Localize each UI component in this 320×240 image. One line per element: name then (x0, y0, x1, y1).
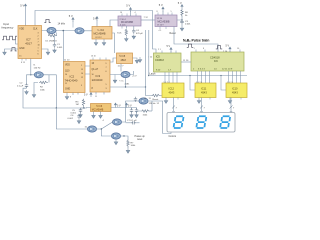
5V arrows on rail (114, 103, 116, 108)
wire latch to IC11 LD (190, 76, 195, 91)
svg-text:4543: 4543 (201, 91, 207, 95)
svg-text:MC14538B: MC14538B (158, 20, 170, 23)
digit 1 (174, 116, 184, 128)
divider IC3 CD4040 (90, 60, 110, 92)
counter IC5 CD4518 (154, 53, 182, 72)
wire IC5 to IC6 (181, 61, 191, 63)
digit 2 (196, 116, 206, 128)
counter IC5a half 4518 (117, 53, 133, 64)
svg-text:MC14584B: MC14584B (94, 33, 106, 36)
svg-text:Reset: Reset (170, 32, 177, 35)
resistor R3 (82, 99, 84, 107)
svg-text:Q1-A7: Q1-A7 (92, 68, 99, 71)
svg-text:10: 10 (65, 74, 67, 76)
svg-text:MC14584B: MC14584B (92, 109, 104, 111)
pin stubs under 4543s (178, 98, 241, 100)
svg-text:4518: 4518 (121, 59, 127, 62)
5V at IC8b (162, 11, 164, 15)
display module (167, 113, 235, 133)
svg-text:¼ IC: ¼ IC (119, 80, 124, 83)
svg-text:16 10: 16 10 (91, 56, 96, 58)
resistor R7 (127, 140, 129, 148)
svg-text:7: 7 (106, 67, 107, 69)
resistor R4 (150, 110, 152, 112)
5V at IC8a (130, 12, 132, 17)
pulse glyph near IC7 output (44, 19, 50, 22)
ground under R7 (127, 148, 129, 149)
svg-text:Reset: Reset (153, 98, 159, 101)
svg-text:6: 6 (106, 71, 107, 73)
pin stubs below IC7 (22, 59, 26, 61)
svg-text:D1 1N5818: D1 1N5818 (46, 40, 58, 42)
wire gate U-C output down to reset rail (49, 75, 56, 108)
svg-text:IC3: IC3 (96, 74, 101, 78)
ground under gate U-H (115, 139, 117, 140)
svg-text:5 V: 5 V (84, 94, 88, 97)
wires IC2 to IC3 (85, 66, 90, 74)
svg-text:5 V: 5 V (128, 104, 132, 107)
svg-text:11: 11 (92, 80, 94, 82)
svg-text:470 pF: 470 pF (136, 33, 143, 35)
gate U-C schmitt buffer (34, 72, 43, 78)
svg-text:10: 10 (92, 74, 94, 76)
svg-text:11: 11 (65, 83, 67, 85)
svg-text:9: 9 (81, 85, 82, 87)
svg-text:5: 5 (38, 51, 39, 53)
grounds under IC4 (95, 39, 97, 41)
svg-text:5 V: 5 V (167, 45, 171, 48)
capacitor C2 (30, 74, 31, 75)
ground right of IC5a (133, 57, 138, 60)
gate U-E (139, 98, 148, 104)
svg-text:15: 15 (19, 56, 21, 58)
decoder IC10 4543 (226, 83, 247, 98)
schmitt box IC6 MC14584B (91, 104, 112, 112)
svg-text:IC12: IC12 (169, 87, 175, 91)
decoder IC11 4543 (195, 83, 216, 98)
svg-text:1M: 1M (76, 104, 79, 106)
wire input to IC7 pin 14 (16, 40, 18, 44)
capacitor C6 (77, 114, 80, 119)
svg-text:13 10 9: 13 10 9 (157, 24, 165, 26)
IC4 schmitt box MC14584B (92, 27, 112, 40)
svg-text:14 kHz: 14 kHz (58, 22, 66, 25)
svg-text:C7 0.1 µF: C7 0.1 µF (127, 120, 137, 122)
5V at gate U-B (72, 22, 74, 28)
svg-text:Latch: Latch (150, 72, 157, 75)
small cap above rail (134, 97, 137, 102)
svg-text:12: 12 (81, 77, 83, 79)
svg-text:0.001: 0.001 (185, 24, 191, 26)
wire gate U-F out split (97, 122, 113, 136)
svg-text:8: 8 (157, 11, 158, 13)
svg-text:3 11 6: 3 11 6 (120, 25, 126, 27)
capacitor C3 (181, 19, 182, 20)
5V at IC4 (96, 21, 98, 27)
svg-text:4: 4 (135, 12, 136, 14)
wire IC8a to IC8b (141, 19, 155, 21)
svg-text:1: 1 (81, 65, 82, 67)
resistor R2 (34, 75, 49, 93)
svg-text:5: 5 (171, 11, 172, 13)
monostable IC8 MC14538B first half (118, 16, 141, 27)
5V supply at IC7 (25, 9, 27, 26)
wire vertical tap down to IC2 (62, 31, 64, 62)
svg-text:Comm: Comm (169, 134, 177, 138)
ground above gate U-D (139, 57, 141, 58)
svg-text:CD4518: CD4518 (210, 56, 220, 60)
top pin stubs on counters (162, 50, 240, 54)
wire latch to IC10 LD (221, 76, 226, 91)
reset rail to 4543 (146, 30, 163, 96)
svg-text:GND: GND (19, 48, 24, 50)
pin stubs on IC8a (122, 14, 136, 29)
gate U-D (121, 71, 130, 77)
wire into gate U-D (110, 64, 134, 75)
capacitor C1 (54, 36, 56, 43)
svg-text:4543: 4543 (232, 91, 238, 95)
node junction at divider tap (63, 30, 65, 32)
svg-text:3: 3 (38, 33, 39, 35)
svg-text:7: 7 (38, 42, 39, 44)
capacitor C7 (126, 122, 131, 124)
svg-text:4 5: 4 5 (159, 30, 162, 32)
svg-text:0.002: 0.002 (68, 118, 74, 120)
svg-text:16: 16 (120, 12, 122, 14)
svg-text:5 V: 5 V (117, 104, 121, 107)
wire IC3 to half 4518 (110, 58, 117, 62)
svg-text:IC10: IC10 (232, 87, 238, 91)
svg-text:GND: GND (65, 89, 70, 91)
ground under C3 (181, 25, 183, 27)
capacitor C9 with ground (136, 108, 138, 109)
resistor R1 (49, 33, 57, 36)
ground under R5 (125, 37, 129, 41)
resistor R8 (152, 94, 161, 96)
svg-text:14: 14 (81, 73, 83, 75)
wire IC4 out up to IC8 monostable (110, 20, 118, 27)
wire IC7 to gate chain (42, 30, 93, 32)
wire gate U-E out (148, 101, 171, 134)
ground under R2 (32, 93, 36, 97)
input square wave (2, 36, 17, 40)
divider IC2 74HC4040 (64, 62, 86, 93)
svg-text:5 V: 5 V (126, 3, 130, 7)
svg-text:5 V: 5 V (69, 14, 73, 18)
grounds under IC2 (66, 93, 68, 96)
5V under IC3 (90, 93, 92, 98)
capacitor C8 with ground (131, 108, 133, 109)
svg-text:frequency: frequency (2, 25, 14, 29)
wire top bus from IC7 clock to counter section (35, 11, 156, 54)
svg-text:5: 5 (106, 84, 107, 86)
segment buses to display (174, 98, 232, 113)
capacitor C5 (81, 107, 84, 108)
capacitor C4 under IC8a (133, 26, 135, 29)
svg-text:5 V: 5 V (178, 1, 182, 5)
svg-text:VDD: VDD (19, 28, 24, 30)
pulse glyph on reset wire (187, 44, 193, 47)
svg-text:11 10: 11 10 (64, 60, 70, 62)
svg-text:IC11: IC11 (201, 87, 207, 91)
data wires IC6 to IC10 (229, 71, 241, 83)
ground under C5 (79, 113, 83, 117)
wire gate U-H out to R7 (121, 136, 129, 140)
ground at IC7 right pin (42, 49, 49, 51)
svg-text:3: 3 (106, 88, 107, 90)
svg-text:5 V: 5 V (159, 3, 163, 7)
svg-text:CD4040: CD4040 (93, 78, 103, 82)
svg-text:VDD: VDD (65, 65, 70, 67)
bus slash marks (172, 106, 233, 109)
svg-text:0.1 µF: 0.1 µF (17, 85, 24, 87)
gate U-H (111, 133, 120, 139)
5V above R6 (181, 5, 183, 10)
pulse glyph at input (10, 48, 16, 51)
gate U-F (56, 108, 88, 129)
wire gate U-D output rail (110, 78, 146, 87)
svg-text:IC6: IC6 (214, 60, 218, 63)
svg-text:4543: 4543 (169, 91, 175, 95)
gate U-A schmitt buffer (47, 27, 56, 33)
svg-text:5 V: 5 V (20, 4, 24, 8)
gate U-G (112, 119, 121, 125)
ground under C1 (53, 48, 57, 52)
counter IC6 CD4518 (191, 52, 244, 71)
monostable IC8 MC14538B second half (155, 15, 177, 27)
svg-text:1: 1 (38, 48, 39, 50)
IC7 4017 decade counter (18, 26, 42, 59)
pin stubs above IC3 (93, 58, 106, 61)
gate U-B schmitt buffer (75, 28, 84, 34)
data wires IC5 to IC12 (165, 72, 177, 83)
svg-text:4017: 4017 (25, 41, 32, 45)
svg-text:reset: reset (137, 138, 143, 141)
wire gate U-G out up to gate U-E (122, 101, 140, 122)
svg-text:0.001: 0.001 (57, 47, 63, 49)
data wires IC6 to IC11 (198, 71, 210, 83)
wire node to IC6 (84, 107, 91, 110)
grounds under IC6 (93, 112, 95, 114)
svg-text:6: 6 (38, 54, 39, 56)
svg-text:12 11 10 9: 12 11 10 9 (222, 69, 233, 71)
ground under C2 (25, 90, 29, 94)
svg-text:Q10: Q10 (65, 71, 70, 73)
ground under C4 (132, 35, 136, 39)
resistor R5 under IC8a (125, 26, 127, 28)
wire IC6 right to supply caps (111, 107, 137, 109)
svg-text:5 V: 5 V (93, 17, 97, 21)
svg-text:6 5 4 3: 6 5 4 3 (198, 69, 205, 71)
wire pulse-train output to IC6 clock (174, 27, 218, 53)
wire power-up node long run (23, 88, 84, 108)
ground at gate U-D input (114, 75, 116, 79)
svg-text:120 Hz: 120 Hz (34, 68, 41, 70)
digit 3 (220, 116, 230, 128)
svg-text:8 9 12: 8 9 12 (96, 37, 103, 39)
svg-text:5 V: 5 V (226, 45, 230, 48)
5V at IC5 (170, 52, 172, 54)
decoder IC12 4543 (162, 83, 184, 98)
pulse glyph at IC6 clock (216, 46, 222, 49)
svg-text:+5 V: +5 V (132, 76, 137, 78)
5V at IC6 (229, 51, 231, 52)
svg-text:IC2: IC2 (70, 75, 75, 79)
svg-text:10: 10 (38, 45, 40, 47)
resistor R6 (177, 17, 182, 20)
wire IC4 to half 4518 (112, 33, 115, 53)
latch line (150, 75, 247, 77)
svg-text:11 16: 11 16 (183, 60, 189, 62)
svg-text:15: 15 (81, 69, 83, 71)
pin stubs on IC8b (158, 13, 172, 30)
svg-text:CD4518: CD4518 (155, 59, 164, 62)
ground at IC7 GND pin (5, 49, 19, 51)
svg-text:2: 2 (38, 36, 39, 38)
svg-text:9: 9 (106, 63, 107, 65)
svg-text:74HC4040: 74HC4040 (65, 79, 78, 83)
svg-text:4: 4 (38, 39, 39, 41)
svg-text:N2B2 Pulse train: N2B2 Pulse train (183, 38, 209, 43)
wire IC7 bottom to gate U-C (31, 59, 34, 75)
grounds under 4543s (165, 98, 167, 100)
svg-text:CLK: CLK (33, 28, 38, 30)
